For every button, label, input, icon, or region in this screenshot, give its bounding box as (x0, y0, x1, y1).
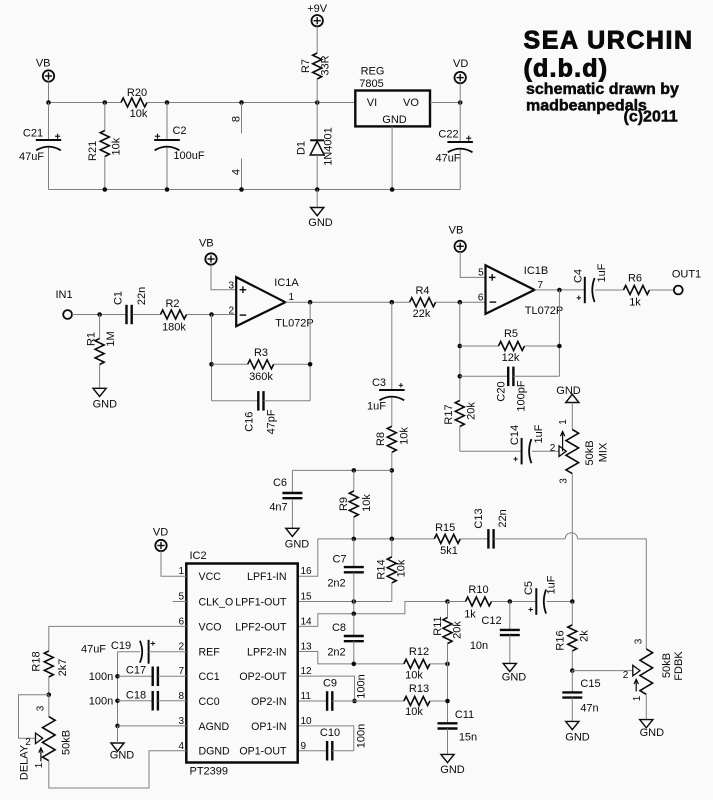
wire REG VO to VD node (430, 102, 460, 104)
capacitor C10 100n (298, 724, 368, 761)
svg-text:2n2: 2n2 (327, 646, 345, 658)
terminal IN1 (55, 289, 72, 319)
wire pin5 stub (173, 601, 187, 603)
svg-text:TL072P: TL072P (525, 305, 564, 317)
resistor R21 10k (87, 103, 123, 190)
junction bus at pin3 (115, 724, 120, 729)
junction IC1B inverting node (458, 300, 463, 305)
svg-text:VB: VB (449, 225, 464, 237)
svg-text:22k: 22k (413, 308, 431, 320)
svg-text:R8: R8 (375, 432, 387, 446)
op-amp IC1B TL072P (478, 265, 563, 317)
svg-text:CC0: CC0 (199, 696, 220, 708)
svg-text:20k: 20k (451, 621, 463, 639)
junction C7 bottom on pin15 row (352, 599, 357, 604)
svg-text:3: 3 (559, 478, 570, 484)
voltage regulator REG 7805 (355, 65, 430, 126)
svg-text:5: 5 (478, 268, 484, 279)
svg-text:2: 2 (550, 443, 556, 454)
svg-text:22n: 22n (497, 509, 509, 527)
junction R13 right on R11 column (445, 699, 450, 704)
svg-text:GND: GND (110, 750, 135, 762)
diode D1 1N4001 (296, 103, 335, 190)
svg-text:11: 11 (301, 691, 312, 702)
svg-text:2n2: 2n2 (327, 577, 345, 589)
junction bus at C17 (115, 674, 120, 679)
svg-text:8: 8 (230, 116, 242, 122)
svg-text:7: 7 (538, 280, 544, 291)
svg-text:5k1: 5k1 (440, 545, 458, 557)
svg-text:C14: C14 (509, 425, 521, 445)
junction C7 top / R9 bottom (352, 537, 357, 542)
resistor R13 10k (355, 683, 448, 718)
wire C4 to R6 (595, 289, 623, 291)
wire pin15 row (298, 601, 392, 603)
pin 4 power stub of IC1 (230, 159, 242, 190)
svg-text:360k: 360k (249, 371, 273, 383)
wire node to FDBK wiper (572, 670, 633, 672)
svg-text:R2: R2 (165, 298, 179, 310)
svg-text:IN1: IN1 (55, 289, 72, 301)
svg-text:LPF1-OUT: LPF1-OUT (235, 596, 287, 608)
svg-text:4: 4 (230, 169, 242, 175)
resistor R20 (121, 87, 148, 120)
svg-text:1uF: 1uF (367, 400, 386, 412)
junction R18/DELAY3 node (47, 693, 52, 698)
svg-text:1M: 1M (105, 331, 117, 346)
svg-text:9: 9 (301, 741, 307, 752)
svg-text:1: 1 (558, 419, 569, 425)
wire IC1B inverting node down (459, 302, 461, 400)
svg-text:33R: 33R (319, 55, 331, 75)
wire C1 to R2 (133, 314, 161, 316)
svg-text:R4: R4 (415, 285, 429, 297)
svg-text:GND: GND (93, 398, 118, 410)
svg-text:10k: 10k (130, 108, 148, 120)
capacitor C3 1uF (367, 302, 405, 426)
IC U2 PT2399 delay chip (178, 550, 312, 778)
svg-text:1: 1 (632, 695, 643, 701)
wire R15 to C13 (460, 538, 488, 540)
capacitor C9 100n (298, 674, 368, 711)
svg-text:REF: REF (199, 646, 221, 658)
op-amp IC1A TL072P (228, 277, 313, 329)
terminal VB at IC1B (449, 225, 466, 252)
wire R17 to C14 (460, 450, 522, 452)
svg-text:1uF: 1uF (545, 575, 557, 594)
svg-text:VB: VB (199, 237, 214, 249)
capacitor C4 1uF (572, 263, 608, 303)
svg-text:R20: R20 (127, 87, 147, 99)
potentiometer DELAY 50kB (18, 695, 72, 780)
capacitor C15 47n (562, 671, 600, 722)
capacitor C12 10n (470, 602, 520, 664)
svg-text:4n7: 4n7 (269, 501, 287, 513)
ground symbol below C6 (285, 528, 310, 550)
junction R3 right (308, 362, 313, 367)
ground symbol below R1 (93, 388, 118, 410)
svg-text:GND: GND (556, 385, 581, 397)
svg-text:C6: C6 (273, 477, 287, 489)
wire R4 to IC1B pin6 (436, 301, 486, 303)
svg-text:OP2-IN: OP2-IN (251, 696, 286, 708)
wire DELAY wiper loop (19, 695, 49, 739)
terminal VB at IC1A (199, 237, 217, 264)
svg-text:VB: VB (36, 58, 51, 70)
svg-text:15: 15 (301, 592, 313, 603)
junction IC1B output node (557, 288, 562, 293)
wire C7C8 link between rows (353, 602, 355, 614)
wire R2 to IC1A pin2 (187, 314, 237, 316)
junction R9 top (352, 468, 357, 473)
junction top rail at R21 (103, 100, 108, 105)
wire virtual ground row (318, 538, 435, 540)
svg-text:GND: GND (382, 114, 407, 126)
svg-text:+9V: +9V (307, 3, 328, 15)
capacitor C17 100n (89, 664, 187, 686)
svg-text:IC2: IC2 (190, 550, 207, 562)
svg-text:C3: C3 (372, 377, 386, 389)
svg-text:R13: R13 (409, 683, 429, 695)
resistor R14 10k (375, 539, 407, 602)
capacitor C18 100n (89, 689, 187, 710)
svg-text:GND: GND (285, 538, 310, 550)
wire node A row to C6 (292, 469, 391, 471)
capacitor C7 2n2 (327, 539, 363, 602)
resistor R3 360k (212, 347, 311, 383)
junction pin14 row at cap column (352, 612, 357, 617)
junction top rail at C21 (46, 100, 51, 105)
capacitor C21 47uF (19, 103, 61, 190)
wire VD to pin1 VCC (161, 551, 186, 576)
wire C5 to delay node (547, 601, 573, 603)
svg-text:R6: R6 (628, 273, 642, 285)
svg-text:(d.b.d): (d.b.d) (524, 55, 609, 83)
svg-text:2k7: 2k7 (57, 659, 69, 677)
svg-text:2: 2 (178, 642, 184, 653)
resistor R2 180k (161, 298, 187, 333)
svg-text:C22: C22 (438, 128, 458, 140)
wire VB top rail (49, 102, 122, 104)
svg-text:DGND: DGND (199, 746, 231, 758)
ground symbol below bypass bus (110, 726, 135, 762)
svg-text:16: 16 (301, 566, 313, 577)
wire C14 to MIX wiper (532, 450, 559, 452)
wire pin16 riser (298, 539, 318, 576)
capacitor C11 15n (438, 709, 478, 755)
junction R10/R11 node (445, 599, 450, 604)
svg-text:C16: C16 (244, 412, 256, 432)
wire hop to FDBK terminal 3 (578, 539, 647, 649)
svg-text:IC1A: IC1A (274, 277, 299, 289)
svg-text:VCC: VCC (199, 571, 222, 583)
svg-text:50kB: 50kB (661, 653, 673, 678)
svg-text:C20: C20 (495, 381, 507, 401)
svg-text:10k: 10k (395, 559, 407, 577)
svg-text:C21: C21 (23, 127, 43, 139)
svg-text:PT2399: PT2399 (190, 766, 229, 778)
svg-text:LPF1-IN: LPF1-IN (247, 571, 286, 583)
svg-text:OUT1: OUT1 (672, 268, 701, 280)
svg-text:C19: C19 (111, 640, 131, 652)
wire R8 to node A (391, 452, 393, 539)
svg-text:100n: 100n (89, 671, 113, 683)
svg-text:47uF: 47uF (81, 643, 106, 655)
junction node A bottom / R14 top (390, 537, 395, 542)
svg-text:VI: VI (367, 97, 377, 109)
capacitor C5 1uF (523, 575, 558, 615)
junction R16/C15/FDBK wiper node (570, 668, 575, 673)
junction IC1A inverting node (209, 312, 214, 317)
wire IC1B output node down (558, 290, 560, 376)
junction bottom rail at D1/GND (315, 187, 320, 192)
svg-text:2: 2 (623, 670, 629, 681)
svg-text:180k: 180k (162, 321, 186, 333)
junction bottom rail at C2 (165, 187, 170, 192)
pin 8 power stub of IC1 (230, 103, 242, 134)
wire bypass bus vertical (117, 652, 119, 737)
svg-text:7805: 7805 (359, 78, 383, 90)
svg-text:3: 3 (228, 280, 234, 291)
junction C8 bottom node (352, 662, 357, 667)
junction C12 top (508, 599, 513, 604)
svg-text:C13: C13 (473, 508, 485, 528)
wire R6 to OUT1 (650, 289, 674, 291)
svg-text:C5: C5 (523, 581, 535, 595)
svg-text:47pF: 47pF (265, 409, 277, 434)
wire IN1 to C1 (72, 314, 125, 316)
svg-text:AGND: AGND (199, 721, 230, 733)
svg-text:schematic drawn by: schematic drawn by (526, 81, 679, 98)
capacitor C6 4n7 (269, 470, 302, 528)
svg-text:47uF: 47uF (435, 152, 460, 164)
resistor R16 2k (554, 602, 590, 671)
svg-text:C9: C9 (323, 677, 337, 689)
svg-text:VD: VD (453, 58, 468, 70)
svg-text:VD: VD (153, 526, 168, 538)
wire C13 to hop (494, 538, 566, 540)
junction bus at C18 (115, 699, 120, 704)
wire top rail R20 to REG VI (147, 102, 355, 104)
svg-text:GND: GND (640, 727, 665, 739)
svg-text:10k: 10k (405, 706, 423, 718)
wire GND to MIX terminal 1 (571, 403, 573, 430)
svg-text:2k: 2k (578, 630, 590, 642)
capacitor C1 22n (112, 287, 148, 324)
svg-text:R16: R16 (554, 630, 566, 650)
svg-text:13: 13 (301, 642, 313, 653)
svg-text:100pF: 100pF (515, 380, 527, 411)
ground symbol below FDBK (640, 720, 665, 740)
svg-text:C15: C15 (580, 678, 600, 690)
svg-text:VO: VO (403, 97, 419, 109)
resistor R15 5k1 (434, 522, 460, 557)
terminal VD (regulator output) (453, 58, 468, 103)
svg-text:DELAY: DELAY (18, 744, 30, 780)
wire IC1A output row (285, 301, 409, 303)
svg-text:100n: 100n (355, 724, 367, 748)
ground symbol below C11 (440, 754, 465, 776)
resistor R10 1k (448, 584, 537, 621)
svg-text:3: 3 (178, 716, 184, 727)
svg-text:OP1-IN: OP1-IN (251, 721, 286, 733)
junction VD node (458, 100, 463, 105)
wire IC1B output to C4 (535, 289, 585, 291)
wire VB to IC1A pin3 (211, 265, 236, 290)
svg-text:1: 1 (34, 762, 45, 768)
svg-text:R5: R5 (504, 328, 518, 340)
junction top rail at C2 (165, 100, 170, 105)
svg-text:R1: R1 (85, 332, 97, 346)
svg-text:TL072P: TL072P (275, 317, 314, 329)
svg-text:OP2-OUT: OP2-OUT (239, 671, 287, 683)
terminal VD at IC2 (153, 526, 168, 551)
svg-text:4: 4 (178, 741, 184, 752)
svg-text:7: 7 (178, 666, 184, 677)
wire pin3 AGND to bus (118, 725, 187, 727)
junction R3 left (209, 362, 214, 367)
svg-text:47n: 47n (580, 702, 598, 714)
svg-text:5: 5 (178, 592, 184, 603)
resistor R6 1k (624, 273, 650, 309)
wire pin12 riser down (298, 676, 355, 701)
wire VB to IC1B pin5 (460, 252, 485, 277)
resistor R17 20k (443, 401, 478, 452)
svg-text:R12: R12 (409, 646, 429, 658)
junction R5 left (458, 344, 463, 349)
svg-text:GND: GND (308, 217, 333, 229)
junction IC1A output feedback (308, 300, 313, 305)
junction bottom rail at R21 (103, 187, 108, 192)
svg-text:GND: GND (565, 731, 590, 743)
junction C20 left (458, 374, 463, 379)
svg-text:6: 6 (178, 616, 184, 627)
junction C3/R4 node (390, 300, 395, 305)
svg-text:LPF2-IN: LPF2-IN (247, 646, 286, 658)
ground symbol above MIX (556, 385, 581, 402)
resistor R5 12k (460, 328, 560, 364)
svg-text:MIX: MIX (597, 442, 609, 462)
junction pin12/C9/R13 node (352, 699, 357, 704)
svg-text:100n: 100n (89, 696, 113, 708)
svg-text:R9: R9 (338, 497, 350, 511)
junction R1 node (97, 312, 102, 317)
capacitor C19 47uF (81, 640, 186, 664)
svg-text:1k: 1k (464, 609, 476, 621)
svg-text:SEA URCHIN: SEA URCHIN (524, 27, 694, 55)
capacitor C16 47pF (212, 391, 311, 434)
svg-text:10: 10 (301, 716, 313, 727)
svg-text:20k: 20k (465, 402, 477, 420)
svg-text:R21: R21 (87, 141, 99, 161)
svg-text:GND: GND (440, 764, 465, 776)
capacitor C2 100uF (154, 103, 205, 190)
wire pin6 VCO to R18 (49, 626, 187, 651)
svg-text:C1: C1 (112, 291, 124, 305)
junction top rail at pin8 stub (239, 100, 244, 105)
svg-text:LPF2-OUT: LPF2-OUT (235, 621, 287, 633)
capacitor C13 22n (473, 508, 509, 548)
junction delay mix node (570, 599, 575, 604)
svg-text:12: 12 (301, 666, 313, 677)
resistor R18 2k7 (30, 651, 69, 695)
svg-text:15n: 15n (459, 731, 477, 743)
wire pin10 riser down (298, 726, 354, 751)
resistor R12 10k (404, 646, 448, 682)
resistor R9 10k (338, 470, 373, 539)
svg-text:CLK_O: CLK_O (199, 596, 234, 608)
svg-text:R17: R17 (443, 404, 455, 424)
terminal OUT1 (672, 268, 701, 294)
terminal VB (power rail left) (36, 58, 54, 103)
svg-text:C2: C2 (172, 125, 186, 137)
svg-text:47uF: 47uF (19, 151, 44, 163)
title text block (524, 27, 694, 126)
svg-text:CC1: CC1 (199, 671, 220, 683)
junction R5 right (557, 344, 562, 349)
svg-text:100uF: 100uF (173, 150, 204, 162)
ground symbol power section (308, 190, 333, 229)
svg-text:1: 1 (178, 566, 184, 577)
wire FDBK1 to ground (645, 695, 647, 720)
svg-text:50kB: 50kB (60, 730, 72, 755)
svg-text:R14: R14 (375, 559, 387, 579)
svg-text:REG: REG (361, 65, 385, 77)
resistor R8 10k (375, 426, 411, 452)
svg-text:R7: R7 (300, 59, 312, 73)
svg-text:22n: 22n (136, 287, 148, 305)
svg-text:C8: C8 (332, 622, 346, 634)
svg-text:IC1B: IC1B (524, 265, 548, 277)
svg-text:12k: 12k (502, 352, 520, 364)
svg-text:R10: R10 (468, 584, 488, 596)
svg-text:3: 3 (36, 705, 47, 711)
svg-text:VCO: VCO (199, 621, 222, 633)
capacitor C8 2n2 (327, 614, 363, 664)
svg-text:C18: C18 (126, 689, 146, 701)
wire hop over MIX3 line (565, 533, 577, 539)
svg-text:14: 14 (301, 616, 313, 627)
svg-text:(c)2011: (c)2011 (624, 109, 678, 126)
capacitor C14 1uF (509, 424, 545, 464)
svg-text:C7: C7 (332, 553, 346, 565)
svg-text:C17: C17 (126, 664, 146, 676)
capacitor C22 47uF (435, 103, 472, 190)
potentiometer MIX 50kB (550, 419, 610, 484)
svg-text:10k: 10k (405, 669, 423, 681)
svg-text:1uF: 1uF (533, 424, 545, 443)
svg-text:C10: C10 (320, 727, 340, 739)
svg-text:1uF: 1uF (596, 263, 608, 282)
wire DELAY1 to pin4 DGND (49, 751, 187, 788)
resistor R7 33R (300, 53, 332, 103)
terminal +9V (307, 3, 328, 53)
wire inverting node down to feedback (211, 315, 213, 401)
resistor R1 1M (85, 315, 117, 389)
svg-text:10k: 10k (361, 494, 373, 512)
svg-text:C11: C11 (455, 709, 474, 721)
wire MIX terminal 3 down to C5 node (571, 474, 573, 602)
svg-text:10k: 10k (110, 137, 122, 155)
resistor R11 20k (432, 602, 464, 723)
svg-text:R3: R3 (254, 347, 268, 359)
svg-text:1k: 1k (629, 296, 641, 308)
ground symbol below C15 (565, 721, 590, 743)
junction node A (390, 468, 395, 473)
svg-text:R11: R11 (432, 616, 444, 635)
wire output down to feedback (309, 302, 311, 401)
junction bottom rail at REG GND (390, 187, 395, 192)
